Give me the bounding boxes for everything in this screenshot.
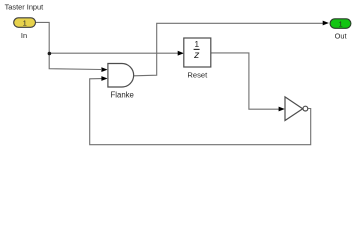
svg-text:1: 1 [23,18,27,27]
svg-text:In: In [21,31,27,40]
svg-text:1: 1 [194,39,199,49]
svg-text:z: z [193,49,200,61]
svg-text:Out: Out [335,31,347,40]
svg-text:1: 1 [338,19,342,28]
svg-text:Taster Input: Taster Input [5,3,44,12]
svg-text:Flanke: Flanke [110,90,133,99]
svg-text:Reset: Reset [187,71,208,80]
